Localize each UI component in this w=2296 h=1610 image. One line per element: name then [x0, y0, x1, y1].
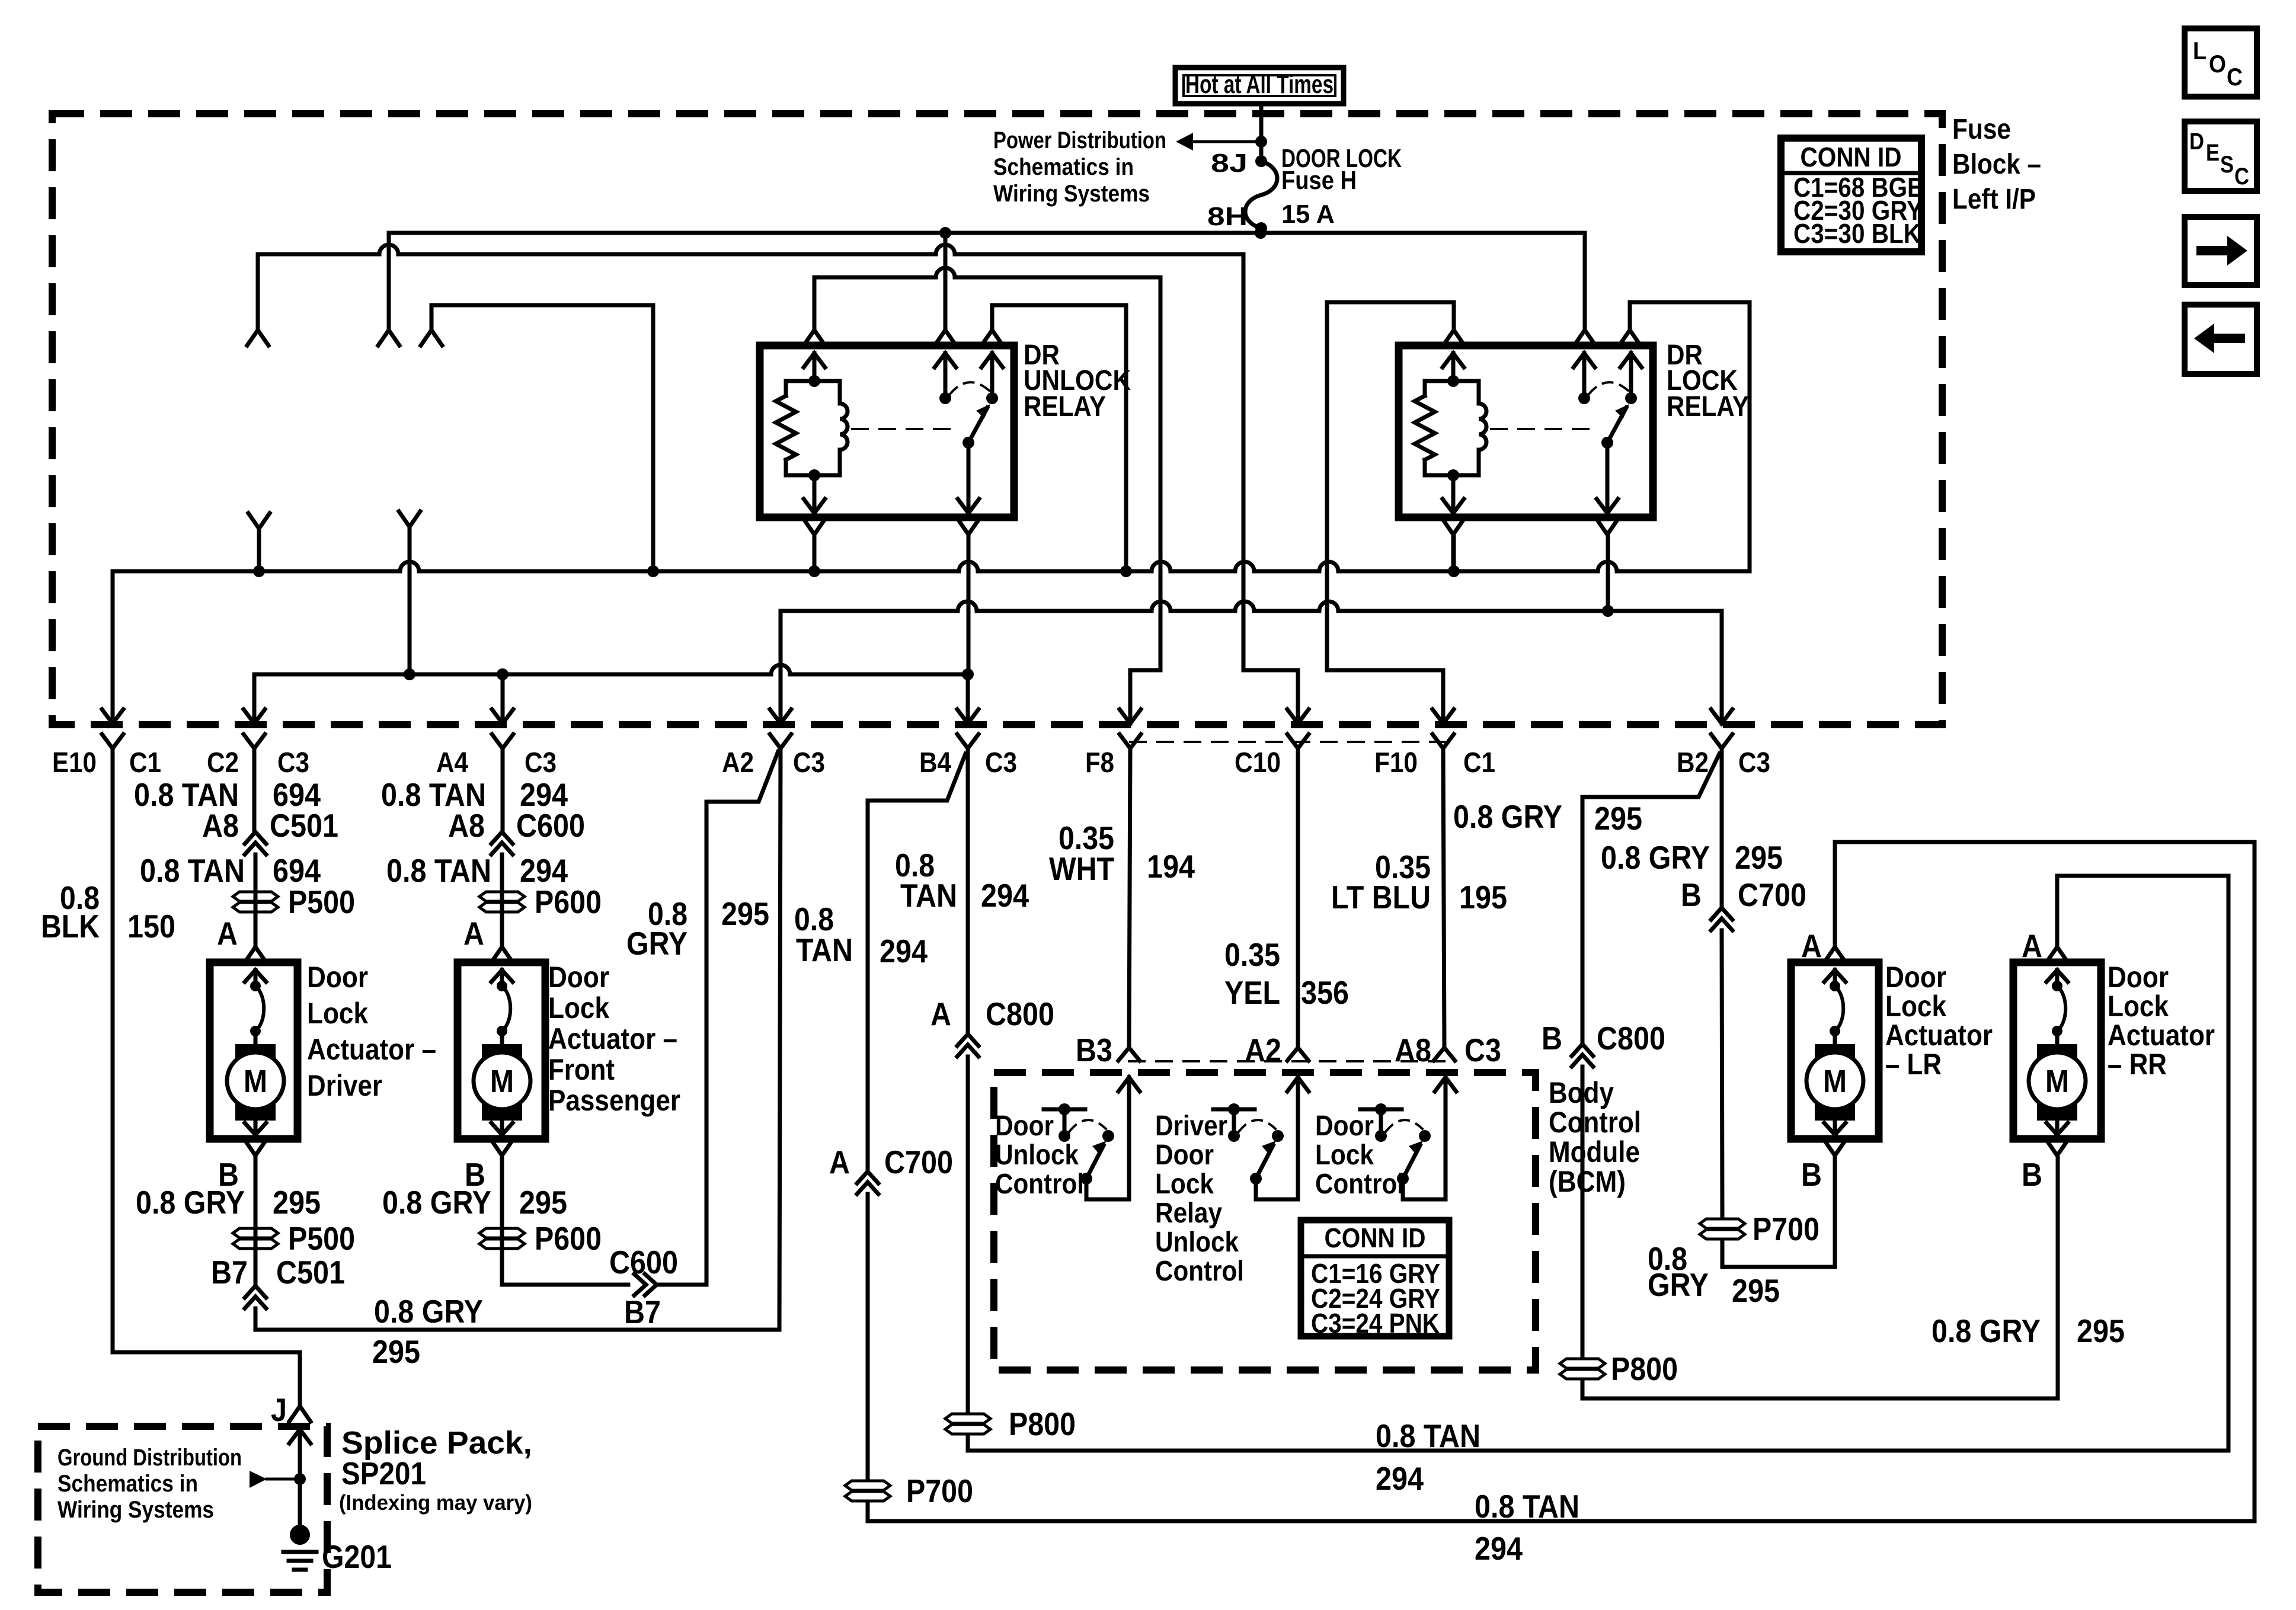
svg-text:Wiring Systems: Wiring Systems	[993, 181, 1150, 207]
LR actuator pin A arrow	[1824, 970, 1846, 982]
svg-text:A8: A8	[202, 807, 239, 844]
svg-text:C3: C3	[985, 747, 1017, 779]
svg-text:P800: P800	[1611, 1350, 1678, 1387]
wire A2 main	[779, 748, 781, 1330]
svg-text:Fuse: Fuse	[1952, 114, 2011, 145]
svg-text:0.35: 0.35	[1224, 936, 1280, 973]
BCM door unlock control switch (B3) T-bar	[1044, 1108, 1085, 1112]
BCM driver door lock relay unlock control switch (A2) input arrow	[1287, 1077, 1309, 1092]
wire bus4M left drop to unlock relay NC	[990, 305, 994, 330]
driver actuator switch curve	[255, 986, 264, 1031]
svg-text:Actuator –: Actuator –	[307, 1033, 436, 1066]
svg-text:C501: C501	[276, 1254, 345, 1291]
svg-text:Schematics in: Schematics in	[57, 1471, 198, 1497]
svg-text:O: O	[2209, 50, 2226, 78]
svg-text:M: M	[1823, 1064, 1847, 1099]
svg-text:– LR: – LR	[1885, 1048, 1942, 1081]
svg-text:M: M	[2045, 1064, 2069, 1099]
svg-text:GRY: GRY	[1648, 1266, 1709, 1303]
svg-text:Fuse H: Fuse H	[1281, 166, 1357, 195]
node bus5-x437	[253, 565, 265, 577]
node bus7-lock-sw	[1602, 605, 1614, 617]
svg-text:A2: A2	[1245, 1032, 1281, 1068]
bus6 (y1138)	[254, 665, 968, 674]
wire lock relay NC to bus5	[1630, 302, 1750, 571]
svg-text:Actuator: Actuator	[2108, 1019, 2215, 1052]
svg-text:Door: Door	[307, 961, 368, 994]
svg-text:(Indexing may vary): (Indexing may vary)	[339, 1490, 532, 1515]
front passenger actuator wire to motor	[500, 1031, 504, 1046]
unlock relay pin arrow coil top	[804, 353, 825, 367]
wire C600 to fp actuator A	[500, 854, 504, 947]
wire bus2 right drop (C10 feed)	[1243, 254, 1298, 724]
svg-text:Door: Door	[1155, 1140, 1214, 1171]
driver actuator pin B arrow	[254, 1121, 258, 1135]
wire bus4L right drop to bus5	[651, 305, 655, 571]
svg-text:295: 295	[2077, 1313, 2125, 1349]
wire LR A feed	[1833, 842, 1837, 947]
border connector F8	[1120, 709, 1141, 724]
svg-text:A8: A8	[1395, 1032, 1431, 1068]
svg-text:P500: P500	[288, 1220, 355, 1257]
node power-distribution tap	[1255, 136, 1267, 148]
RR actuator fork below	[2046, 1140, 2068, 1156]
svg-text:C3=30 BLK: C3=30 BLK	[1793, 218, 1921, 249]
svg-text:C3: C3	[525, 747, 557, 779]
wire B4 jog	[868, 754, 965, 1172]
svg-text:Wiring Systems: Wiring Systems	[57, 1497, 214, 1523]
BCM door unlock control switch (B3) input arrow	[1118, 1077, 1140, 1092]
bus4 left segment (y515)	[431, 303, 653, 308]
splice P500 lower	[233, 1228, 278, 1238]
node bus5-x1102	[647, 565, 659, 577]
wire bus4R left drop (F10 feed)	[1327, 302, 1443, 724]
svg-text:Ground Distribution: Ground Distribution	[57, 1445, 242, 1471]
svg-text:P700: P700	[906, 1473, 973, 1509]
svg-text:294: 294	[981, 877, 1029, 914]
svg-text:Door: Door	[995, 1110, 1054, 1142]
svg-text:Relay: Relay	[1155, 1198, 1222, 1229]
svg-text:C3: C3	[793, 747, 825, 779]
svg-text:GRY: GRY	[626, 925, 687, 962]
wire bus7 left drop A2	[779, 611, 783, 724]
LOC button	[2185, 28, 2257, 97]
LR actuator wire to motor	[1833, 1031, 1837, 1046]
wire bus2 left drop	[256, 254, 260, 330]
BCM CONN ID box	[1301, 1220, 1449, 1336]
splice P800 left	[945, 1414, 990, 1423]
wire B4 main lower	[966, 1057, 970, 1410]
connector Y x691	[399, 511, 420, 527]
wire bus7 right drop B2	[1720, 611, 1724, 724]
svg-text:Power Distribution: Power Distribution	[993, 127, 1166, 153]
svg-text:0.8 TAN: 0.8 TAN	[386, 852, 491, 889]
wire fuse to bus1	[1259, 228, 1264, 233]
svg-text:C700: C700	[1738, 876, 1806, 913]
unlock relay coil output fork below box	[804, 519, 825, 534]
svg-text:E: E	[2206, 140, 2220, 166]
wire bus3 left drop to unlock relay coil	[813, 277, 817, 330]
svg-text:A: A	[829, 1144, 850, 1180]
svg-text:B: B	[1681, 876, 1702, 913]
svg-text:P800: P800	[1009, 1406, 1076, 1442]
svg-text:Control: Control	[1155, 1256, 1244, 1287]
svg-text:Driver: Driver	[1155, 1110, 1227, 1142]
RR actuator motor body	[2037, 1044, 2077, 1121]
wire RR A feed	[2055, 876, 2060, 947]
lock relay switch dashed arc	[1589, 382, 1629, 394]
bus3 (y468)	[814, 268, 1160, 277]
bus7 (y1031)	[781, 601, 1722, 611]
node SP201	[294, 1473, 306, 1485]
fuse block dashed border (Fuse Block - Left I/P)	[52, 114, 1942, 725]
bus 0.8 TAN 294 upper (y2448)	[968, 876, 2228, 1451]
bus4 right segment (y510)	[1327, 300, 1454, 305]
front passenger actuator box	[458, 962, 545, 1139]
splice P700 left	[845, 1481, 890, 1490]
front passenger actuator fork below	[491, 1140, 513, 1156]
LR actuator motor body	[1815, 1044, 1855, 1121]
wire F8 column	[1129, 748, 1130, 1048]
svg-text:0.8 GRY: 0.8 GRY	[374, 1293, 483, 1330]
LR actuator box	[1791, 962, 1879, 1139]
unlock relay switch dashed arc	[950, 382, 990, 394]
svg-text:Splice Pack,: Splice Pack,	[341, 1425, 532, 1461]
svg-text:TAN: TAN	[796, 932, 853, 968]
wire lock coil out to bus5	[1452, 534, 1456, 571]
svg-text:C: C	[2234, 164, 2249, 190]
wire LR B stub	[1833, 1158, 1837, 1170]
wire bus4L left drop	[430, 305, 434, 330]
wire B2 main	[1720, 748, 1724, 908]
LR actuator motor circle M	[1806, 1052, 1863, 1109]
BCM door unlock control switch (B3) contacts	[1059, 1130, 1070, 1142]
unlock relay switch output fork below box	[958, 519, 979, 534]
node bus6-x848	[497, 668, 509, 680]
svg-text:E10: E10	[52, 747, 97, 779]
svg-text:C501: C501	[270, 807, 338, 844]
svg-text:Unlock: Unlock	[1155, 1227, 1239, 1258]
RR actuator box	[2013, 962, 2101, 1139]
svg-text:B4: B4	[919, 747, 951, 779]
BCM door unlock control switch (B3) output wire	[1086, 1179, 1129, 1199]
svg-text:Front: Front	[548, 1053, 615, 1086]
node bus6-x691	[404, 668, 415, 680]
svg-text:RELAY: RELAY	[1667, 391, 1749, 422]
lock node coil bottom	[1447, 469, 1459, 481]
LR actuator fork above	[1824, 947, 1846, 962]
svg-text:C700: C700	[884, 1144, 953, 1180]
svg-text:C600: C600	[516, 807, 585, 844]
node bus5-lock-coil-out	[1448, 565, 1460, 577]
splice P800 right	[1560, 1359, 1605, 1368]
wire B4 jog lower	[866, 1194, 870, 1477]
svg-text:294: 294	[1376, 1460, 1424, 1497]
unlock relay coil-switch dashed link	[852, 428, 952, 430]
BCM door lock control switch (A8) output wire	[1403, 1179, 1446, 1199]
BCM door lock control switch (A8) input arrow	[1435, 1077, 1456, 1092]
svg-text:(BCM): (BCM)	[1549, 1165, 1626, 1198]
svg-text:J: J	[271, 1391, 287, 1428]
svg-text:B3: B3	[1076, 1032, 1112, 1068]
svg-text:Left I/P: Left I/P	[1952, 184, 2036, 215]
svg-text:Lock: Lock	[548, 991, 609, 1025]
lock relay contact common	[1578, 392, 1590, 404]
front passenger actuator motor body	[482, 1044, 522, 1121]
unlock relay coil winding	[840, 404, 848, 450]
BCM door unlock control switch (B3) pivot and arm	[1080, 1173, 1092, 1185]
unlock relay contact NC	[986, 392, 998, 404]
front passenger actuator switch curve	[502, 986, 510, 1031]
svg-text:LT BLU: LT BLU	[1331, 879, 1431, 916]
wire B2 jog	[1582, 754, 1719, 1044]
svg-text:M: M	[490, 1064, 514, 1099]
border connector A4/C3	[492, 709, 513, 724]
svg-text:A4: A4	[436, 747, 468, 779]
border connector C2/C3	[244, 709, 265, 724]
wire C2 column upper	[252, 748, 257, 832]
svg-text:A: A	[1801, 927, 1822, 964]
unlock relay contact common	[939, 392, 951, 404]
svg-text:C2: C2	[207, 747, 239, 779]
svg-text:0.8 GRY: 0.8 GRY	[1601, 839, 1710, 876]
node bus5-x1900	[1120, 565, 1132, 577]
svg-text:295: 295	[1594, 800, 1642, 837]
svg-text:295: 295	[372, 1333, 420, 1370]
wire C501 to actuator A	[254, 854, 258, 947]
svg-text:0.8 TAN: 0.8 TAN	[1475, 1488, 1579, 1525]
svg-text:CONN ID: CONN ID	[1801, 142, 1902, 172]
svg-text:C3: C3	[1464, 1032, 1501, 1068]
svg-text:P600: P600	[535, 884, 602, 920]
unlock relay coil parallel rect	[786, 381, 840, 404]
wire driver B to A2 riser	[255, 1308, 779, 1330]
wire bus1 left drop	[387, 233, 391, 330]
RR actuator switch curve	[2057, 986, 2065, 1031]
lock relay coil output fork below box	[1443, 519, 1464, 534]
front passenger actuator motor circle M	[474, 1052, 530, 1109]
splice pack SP201 wire	[289, 1429, 311, 1443]
front passenger actuator pin B arrow	[500, 1121, 504, 1135]
BCM driver door lock relay unlock control switch (A2) T-bar	[1213, 1108, 1255, 1112]
svg-text:0.8 GRY: 0.8 GRY	[1932, 1313, 2041, 1349]
svg-text:A: A	[2022, 927, 2042, 964]
svg-text:S: S	[2220, 152, 2234, 178]
unlock relay pin arrow common	[935, 353, 956, 367]
node bus1-relay1	[939, 227, 951, 239]
svg-text:A: A	[463, 915, 484, 952]
svg-text:Lock: Lock	[1155, 1169, 1214, 1200]
svg-text:D: D	[2189, 129, 2204, 155]
wire bus4R right drop to lock relay coil	[1452, 302, 1456, 330]
connector C501 B7	[245, 1286, 266, 1298]
BCM driver door lock relay unlock control switch (A2) contacts	[1228, 1130, 1240, 1142]
unlock node coil bottom	[808, 469, 820, 481]
svg-text:295: 295	[1732, 1272, 1780, 1309]
svg-text:P600: P600	[535, 1220, 602, 1257]
fuse terminal 8H	[1255, 222, 1267, 234]
svg-text:Control: Control	[995, 1169, 1084, 1200]
prev arrow button	[2185, 305, 2257, 374]
driver actuator pin A arrow	[245, 970, 266, 982]
wire P700 to LR B	[1722, 1158, 1835, 1267]
wire unlock switch out to B4	[967, 534, 971, 674]
wire lock switch out to bus7	[1606, 534, 1610, 611]
wire F10 column	[1443, 748, 1444, 1048]
lock relay pin arrow common	[1574, 353, 1595, 367]
svg-text:C: C	[2227, 63, 2243, 91]
svg-text:F8: F8	[1085, 747, 1114, 779]
svg-text:356: 356	[1301, 974, 1349, 1011]
BCM driver door lock relay unlock control switch (A2) pivot and arm	[1250, 1173, 1262, 1185]
ground G201	[290, 1525, 310, 1545]
svg-text:294: 294	[1475, 1530, 1523, 1567]
svg-text:0.8 GRY: 0.8 GRY	[382, 1184, 491, 1221]
bus 0.8 TAN 294 lower (y2567)	[868, 842, 2255, 1521]
svg-text:Lock: Lock	[307, 997, 368, 1030]
driver actuator switch contacts	[250, 981, 261, 991]
svg-text:P500: P500	[288, 884, 355, 920]
unlock relay pin arrow NC	[981, 353, 1003, 367]
svg-text:C800: C800	[1597, 1020, 1665, 1057]
svg-text:M: M	[244, 1064, 267, 1099]
ground distribution dashed box	[38, 1426, 327, 1592]
unlock relay switch output arrow	[967, 443, 971, 514]
svg-text:A: A	[217, 915, 238, 952]
svg-text:0.8 TAN: 0.8 TAN	[140, 852, 245, 889]
svg-text:195: 195	[1459, 879, 1507, 916]
wire fp riser to A2 jog	[706, 751, 778, 1285]
wire E10 0.8 BLK 150	[113, 748, 300, 1406]
svg-text:Actuator: Actuator	[1885, 1019, 1993, 1052]
svg-text:15 A: 15 A	[1281, 200, 1335, 229]
arrow to power distribution schematics	[1192, 140, 1261, 143]
svg-text:Door: Door	[1315, 1110, 1374, 1142]
svg-text:Control: Control	[1549, 1106, 1641, 1139]
svg-text:A2: A2	[722, 747, 754, 779]
next arrow button	[2185, 217, 2257, 285]
svg-text:Actuator –: Actuator –	[548, 1022, 677, 1055]
lock node coil top	[1447, 375, 1459, 387]
svg-text:0.8 TAN: 0.8 TAN	[1376, 1417, 1480, 1454]
svg-text:Block –: Block –	[1952, 149, 2041, 180]
border connector C10	[1287, 709, 1309, 724]
svg-text:B2: B2	[1677, 747, 1709, 779]
BCM driver door lock relay unlock control switch (A2) output wire	[1256, 1179, 1298, 1199]
node bus6-unlock-sw	[962, 668, 974, 680]
lock relay pin arrow coil top	[1443, 353, 1464, 367]
node bus5-unlock-coil-out	[808, 565, 820, 577]
wire bus1 to unlock relay common	[944, 233, 948, 330]
RR actuator switch contacts	[2052, 981, 2062, 991]
fuse block CONN ID box	[1781, 138, 1921, 252]
svg-text:Unlock: Unlock	[995, 1140, 1079, 1171]
svg-text:F10: F10	[1374, 747, 1418, 779]
lock relay resistor	[1415, 396, 1435, 460]
svg-text:B: B	[2022, 1156, 2042, 1193]
svg-text:C3: C3	[1738, 747, 1770, 779]
front passenger actuator pin A arrow	[491, 970, 513, 982]
fuse H symbol	[1245, 161, 1277, 228]
svg-text:0.8 GRY: 0.8 GRY	[136, 1184, 245, 1221]
svg-text:C3=24 PNK: C3=24 PNK	[1311, 1308, 1440, 1339]
wire A4 drop	[501, 674, 505, 724]
wire bus5 left drop E10	[111, 571, 115, 724]
lock relay coil winding	[1479, 404, 1486, 450]
svg-text:295: 295	[273, 1184, 321, 1221]
RR actuator wire to motor	[2055, 1031, 2060, 1046]
splice P500 upper	[233, 892, 278, 901]
lock relay armature arm	[1607, 408, 1626, 443]
svg-text:Door: Door	[1885, 961, 1946, 994]
RR actuator pin A arrow	[2046, 970, 2068, 982]
svg-text:Hot at All Times: Hot at All Times	[1185, 70, 1334, 99]
wire RR B stub	[2056, 1158, 2060, 1170]
BCM door lock control switch (A8) T-bar	[1360, 1108, 1402, 1112]
splice P600 upper	[479, 892, 525, 901]
unlock relay resistor	[776, 396, 796, 460]
fuse terminal 8J	[1255, 155, 1267, 167]
lock relay contact NC	[1625, 392, 1637, 404]
driver actuator fork below	[245, 1140, 266, 1156]
driver actuator box	[210, 962, 298, 1139]
svg-text:A8: A8	[448, 807, 485, 844]
svg-text:G201: G201	[322, 1538, 392, 1575]
wire P800 to RR B	[1582, 1158, 2058, 1398]
border connector A2/C3	[770, 709, 791, 724]
svg-text:Lock: Lock	[1315, 1140, 1374, 1171]
unlock relay armature pivot	[962, 437, 974, 449]
svg-text:WHT: WHT	[1049, 850, 1114, 887]
svg-text:A: A	[930, 996, 951, 1032]
svg-text:B7: B7	[211, 1254, 248, 1291]
DESC button	[2185, 121, 2257, 191]
BCM door lock control switch (A8) contacts	[1375, 1130, 1387, 1142]
BCM door lock control switch (A8) pivot and arm	[1397, 1173, 1409, 1185]
lock relay switch output arrow	[1606, 443, 1610, 514]
svg-text:C600: C600	[609, 1244, 678, 1281]
wire fp B to C600 inline	[502, 1283, 628, 1287]
svg-text:B7: B7	[624, 1294, 661, 1330]
wire A4 column upper	[501, 748, 505, 832]
wire B2 main lower	[1722, 930, 1722, 1215]
svg-text:194: 194	[1147, 848, 1195, 885]
border connector B2/C3	[1711, 709, 1732, 724]
svg-text:RELAY: RELAY	[1024, 391, 1106, 422]
svg-text:295: 295	[721, 895, 769, 932]
wire C10 column	[1296, 748, 1300, 1048]
svg-text:8J: 8J	[1211, 149, 1248, 178]
wire hot box to fuse	[1259, 105, 1264, 161]
BCM door lock control switch (A8) dashed arc	[1386, 1120, 1422, 1132]
BCM door unlock control switch (B3) dashed arc	[1069, 1120, 1106, 1132]
bus1 B+ feed (y393)	[389, 231, 1585, 235]
svg-text:150: 150	[127, 908, 175, 945]
unlock relay armature arm	[968, 408, 987, 443]
wire driver B down	[254, 1156, 258, 1286]
svg-text:8H: 8H	[1207, 202, 1248, 231]
border connector B4/C3	[957, 709, 978, 724]
bus4 mid segment (y515)	[992, 303, 1126, 308]
BCM driver door lock relay unlock control switch (A2) dashed arc	[1239, 1120, 1275, 1132]
svg-text:B: B	[1801, 1156, 1822, 1193]
unlock relay coil output arrow	[813, 475, 817, 514]
svg-text:L: L	[2193, 37, 2207, 65]
svg-text:Lock: Lock	[2108, 990, 2169, 1023]
svg-text:295: 295	[519, 1184, 567, 1221]
connector J fork	[289, 1406, 311, 1422]
driver actuator wire to motor	[254, 1031, 258, 1046]
